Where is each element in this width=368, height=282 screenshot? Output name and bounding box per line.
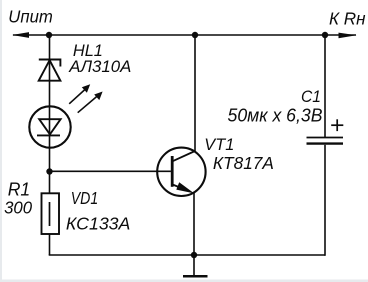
capacitor C1 polarity plus bbox=[331, 119, 343, 131]
transistor VT1 collector diagonal bbox=[172, 151, 195, 162]
page edge tint left bbox=[0, 0, 2, 282]
svg-text:50мк x 6,3В: 50мк x 6,3В bbox=[228, 104, 323, 125]
node: top rail / collector junction bbox=[192, 32, 198, 38]
capacitor C1 top plate bbox=[307, 137, 344, 139]
node A: base junction dot bbox=[46, 168, 52, 174]
svg-text:R1: R1 bbox=[8, 179, 31, 199]
terminal arrow Uпит (left) bbox=[12, 32, 29, 38]
LED HL1 triangle bbox=[39, 119, 60, 134]
resistor R1 inner line bbox=[49, 202, 51, 226]
svg-text:КТ817А: КТ817А bbox=[213, 153, 274, 173]
wire R1 to bottom rail bbox=[49, 234, 51, 255]
transistor VT1 circle bbox=[157, 148, 205, 196]
svg-text:VT1: VT1 bbox=[204, 135, 234, 154]
node: emitter / bottom rail junction bbox=[191, 252, 197, 258]
wire emitter to bottom rail bbox=[193, 193, 195, 255]
resistor R1 body bbox=[42, 193, 60, 234]
LED light arrow 2 bbox=[78, 92, 103, 113]
wire left branch vertical (rail to R1) bbox=[49, 35, 51, 193]
transistor VT1 base bar bbox=[171, 156, 174, 187]
wire top rail bbox=[13, 34, 356, 36]
svg-text:VD1: VD1 bbox=[71, 188, 99, 208]
LED HL1 circle bbox=[29, 106, 70, 147]
ground bbox=[183, 255, 208, 276]
svg-text:АЛ310А: АЛ310А bbox=[68, 57, 131, 76]
wire bottom rail bbox=[49, 254, 325, 256]
svg-text:300: 300 bbox=[4, 197, 32, 217]
svg-text:КС133А: КС133А bbox=[66, 214, 130, 234]
diode VD (zener) triangle bbox=[39, 60, 61, 80]
node: top rail / C1 output junction bbox=[322, 32, 328, 38]
transistor VT1 emitter with arrow bbox=[173, 182, 195, 193]
capacitor C1 bottom plate bbox=[307, 142, 344, 144]
node: top rail / left branch junction bbox=[46, 32, 52, 38]
page edge tint bottom bbox=[0, 280, 368, 282]
terminal arrow К Rн (right) bbox=[339, 33, 357, 39]
svg-text:Uпит: Uпит bbox=[8, 7, 53, 27]
wire C1 branch upper bbox=[324, 35, 326, 137]
svg-text:C1: C1 bbox=[301, 88, 321, 106]
diode VD (zener) cathode bar with hook bbox=[39, 60, 61, 67]
LED light arrow 1 bbox=[69, 84, 90, 104]
wire C1 to bottom rail bbox=[324, 145, 326, 256]
wire base (node A to VT1 base) bbox=[50, 170, 171, 172]
svg-text:К Rн: К Rн bbox=[329, 9, 366, 29]
wire collector to top rail bbox=[194, 35, 196, 152]
LED HL1 cathode bar bbox=[37, 134, 60, 136]
